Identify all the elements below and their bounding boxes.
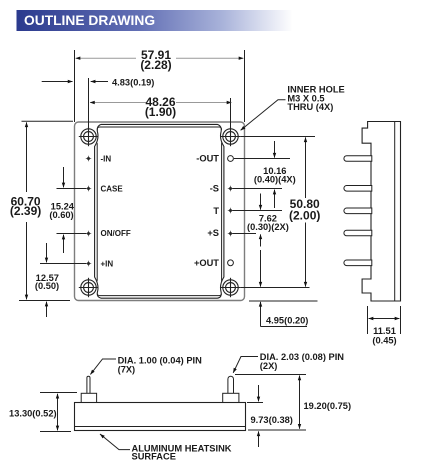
cover plate outer line	[95, 124, 224, 298]
right extension line hole bottom	[240, 287, 309, 289]
pin T	[228, 208, 233, 213]
bottom view left pin shoulder	[81, 393, 96, 402]
side view inner line	[394, 122, 396, 302]
dimension 15.24 arrows	[63, 167, 65, 187]
dimension 11.51 extension lines	[367, 306, 369, 334]
side view pin row 1	[344, 156, 372, 162]
mounting hole top-left	[79, 127, 98, 146]
svg-text:13.30(0.52): 13.30(0.52)	[9, 409, 57, 419]
dimension 19.20 extension lines	[235, 374, 306, 376]
module outline	[75, 122, 245, 301]
svg-text:(2.28): (2.28)	[140, 58, 171, 72]
svg-text:SURFACE: SURFACE	[132, 452, 176, 462]
right extension line hole top	[240, 136, 315, 138]
dimension 60.70 extension lines	[22, 120, 74, 122]
dimension 7.62 arrows	[260, 194, 262, 210]
dimension 10.16 arrows	[274, 141, 276, 158]
right extension line -OUT	[234, 158, 290, 160]
svg-text:-IN: -IN	[101, 155, 112, 164]
bottom view body	[75, 403, 246, 431]
mounting hole bottom-right	[221, 278, 240, 297]
mounting hole top-right	[221, 127, 240, 146]
pin note DIA 2.03 leader	[233, 357, 258, 373]
plate corner clearances	[78, 126, 242, 299]
svg-text:4.95(0.20): 4.95(0.20)	[266, 316, 308, 326]
dimension 57.91 extension lines	[74, 50, 76, 122]
svg-text:(0.30)(2X): (0.30)(2X)	[247, 222, 289, 232]
svg-text:+S: +S	[207, 228, 219, 238]
right extension line module bottom	[249, 300, 318, 302]
pin ON/OFF	[86, 231, 91, 236]
svg-text:11.51: 11.51	[373, 326, 396, 336]
dimension 12.57 arrows	[46, 243, 48, 262]
svg-text:(2X): (2X)	[260, 361, 278, 371]
svg-text:-S: -S	[210, 183, 219, 193]
bottom view right pin shoulder	[223, 393, 239, 402]
svg-text:9.73(0.38): 9.73(0.38)	[251, 415, 293, 425]
dimension 48.26	[90, 102, 146, 104]
dimension 57.91	[76, 57, 136, 59]
side view body	[362, 122, 400, 302]
dimension 9.73 arrows	[258, 385, 260, 401]
bottom view heatsink surface line	[75, 426, 246, 428]
svg-text:(0.40)(4X): (0.40)(4X)	[254, 175, 296, 185]
dimension 48.26 extension line	[230, 98, 232, 127]
dimension 13.30 arrows	[57, 394, 59, 431]
pin +OUT	[228, 260, 234, 266]
inner hole leader	[241, 100, 286, 131]
svg-text:(0.50): (0.50)	[35, 281, 59, 291]
right extension line -S	[232, 188, 282, 190]
pin -OUT	[228, 156, 234, 162]
svg-text:(2.39): (2.39)	[10, 204, 41, 218]
pin +IN	[86, 261, 91, 266]
side view pin row 2	[344, 186, 372, 192]
title bar	[17, 10, 292, 31]
mounting hole bottom-left	[79, 278, 98, 297]
side view pin row 3	[344, 208, 372, 214]
svg-text:CASE: CASE	[101, 184, 124, 193]
dimension 4.95 upper arrow	[260, 250, 262, 287]
dimension 12.57 extension line	[40, 263, 86, 265]
dimension 19.20 arrows	[299, 376, 301, 429]
svg-text:(0.60): (0.60)	[49, 210, 73, 220]
svg-text:(7X): (7X)	[118, 365, 136, 375]
svg-text:+IN: +IN	[101, 259, 114, 268]
pin CASE	[86, 186, 91, 191]
cover plate inner line	[97, 127, 221, 296]
svg-text:(2.00): (2.00)	[289, 209, 320, 223]
svg-text:19.20(0.75): 19.20(0.75)	[304, 401, 352, 411]
side view pin row 5	[344, 260, 372, 266]
svg-text:OUTLINE DRAWING: OUTLINE DRAWING	[24, 13, 155, 28]
dimension 4.83 extension line	[88, 78, 90, 127]
dimension 4.83	[42, 81, 73, 83]
right extension line T	[232, 210, 282, 212]
svg-text:-OUT: -OUT	[196, 154, 219, 164]
dimension 13.30 extension lines	[40, 392, 77, 394]
svg-text:4.83(0.19): 4.83(0.19)	[112, 78, 154, 88]
svg-text:ON/OFF: ON/OFF	[101, 229, 131, 238]
svg-text:(1.90): (1.90)	[145, 105, 176, 119]
bottom view left pin	[87, 376, 90, 393]
pin note DIA 1.00 leader	[90, 359, 116, 374]
svg-text:T: T	[213, 206, 219, 216]
svg-text:THRU (4X): THRU (4X)	[287, 102, 333, 112]
dimension 11.51 arrows	[369, 318, 400, 320]
pin -IN	[86, 156, 91, 161]
dimension 60.70	[26, 122, 28, 192]
heatsink note leader	[100, 434, 130, 450]
dimension 4.95 lower arrow	[260, 302, 262, 327]
dimension 15.24 extension lines	[57, 188, 87, 190]
svg-text:(0.45): (0.45)	[372, 336, 396, 346]
dimension 50.80	[305, 137, 307, 198]
svg-text:+OUT: +OUT	[194, 258, 219, 268]
side view pin row 4	[344, 230, 372, 236]
pin -S	[228, 186, 233, 191]
bottom view right pin	[228, 376, 234, 393]
pin +S	[228, 231, 233, 236]
right extension line +S	[232, 233, 256, 235]
dimension 9.73 extension line	[247, 402, 263, 404]
